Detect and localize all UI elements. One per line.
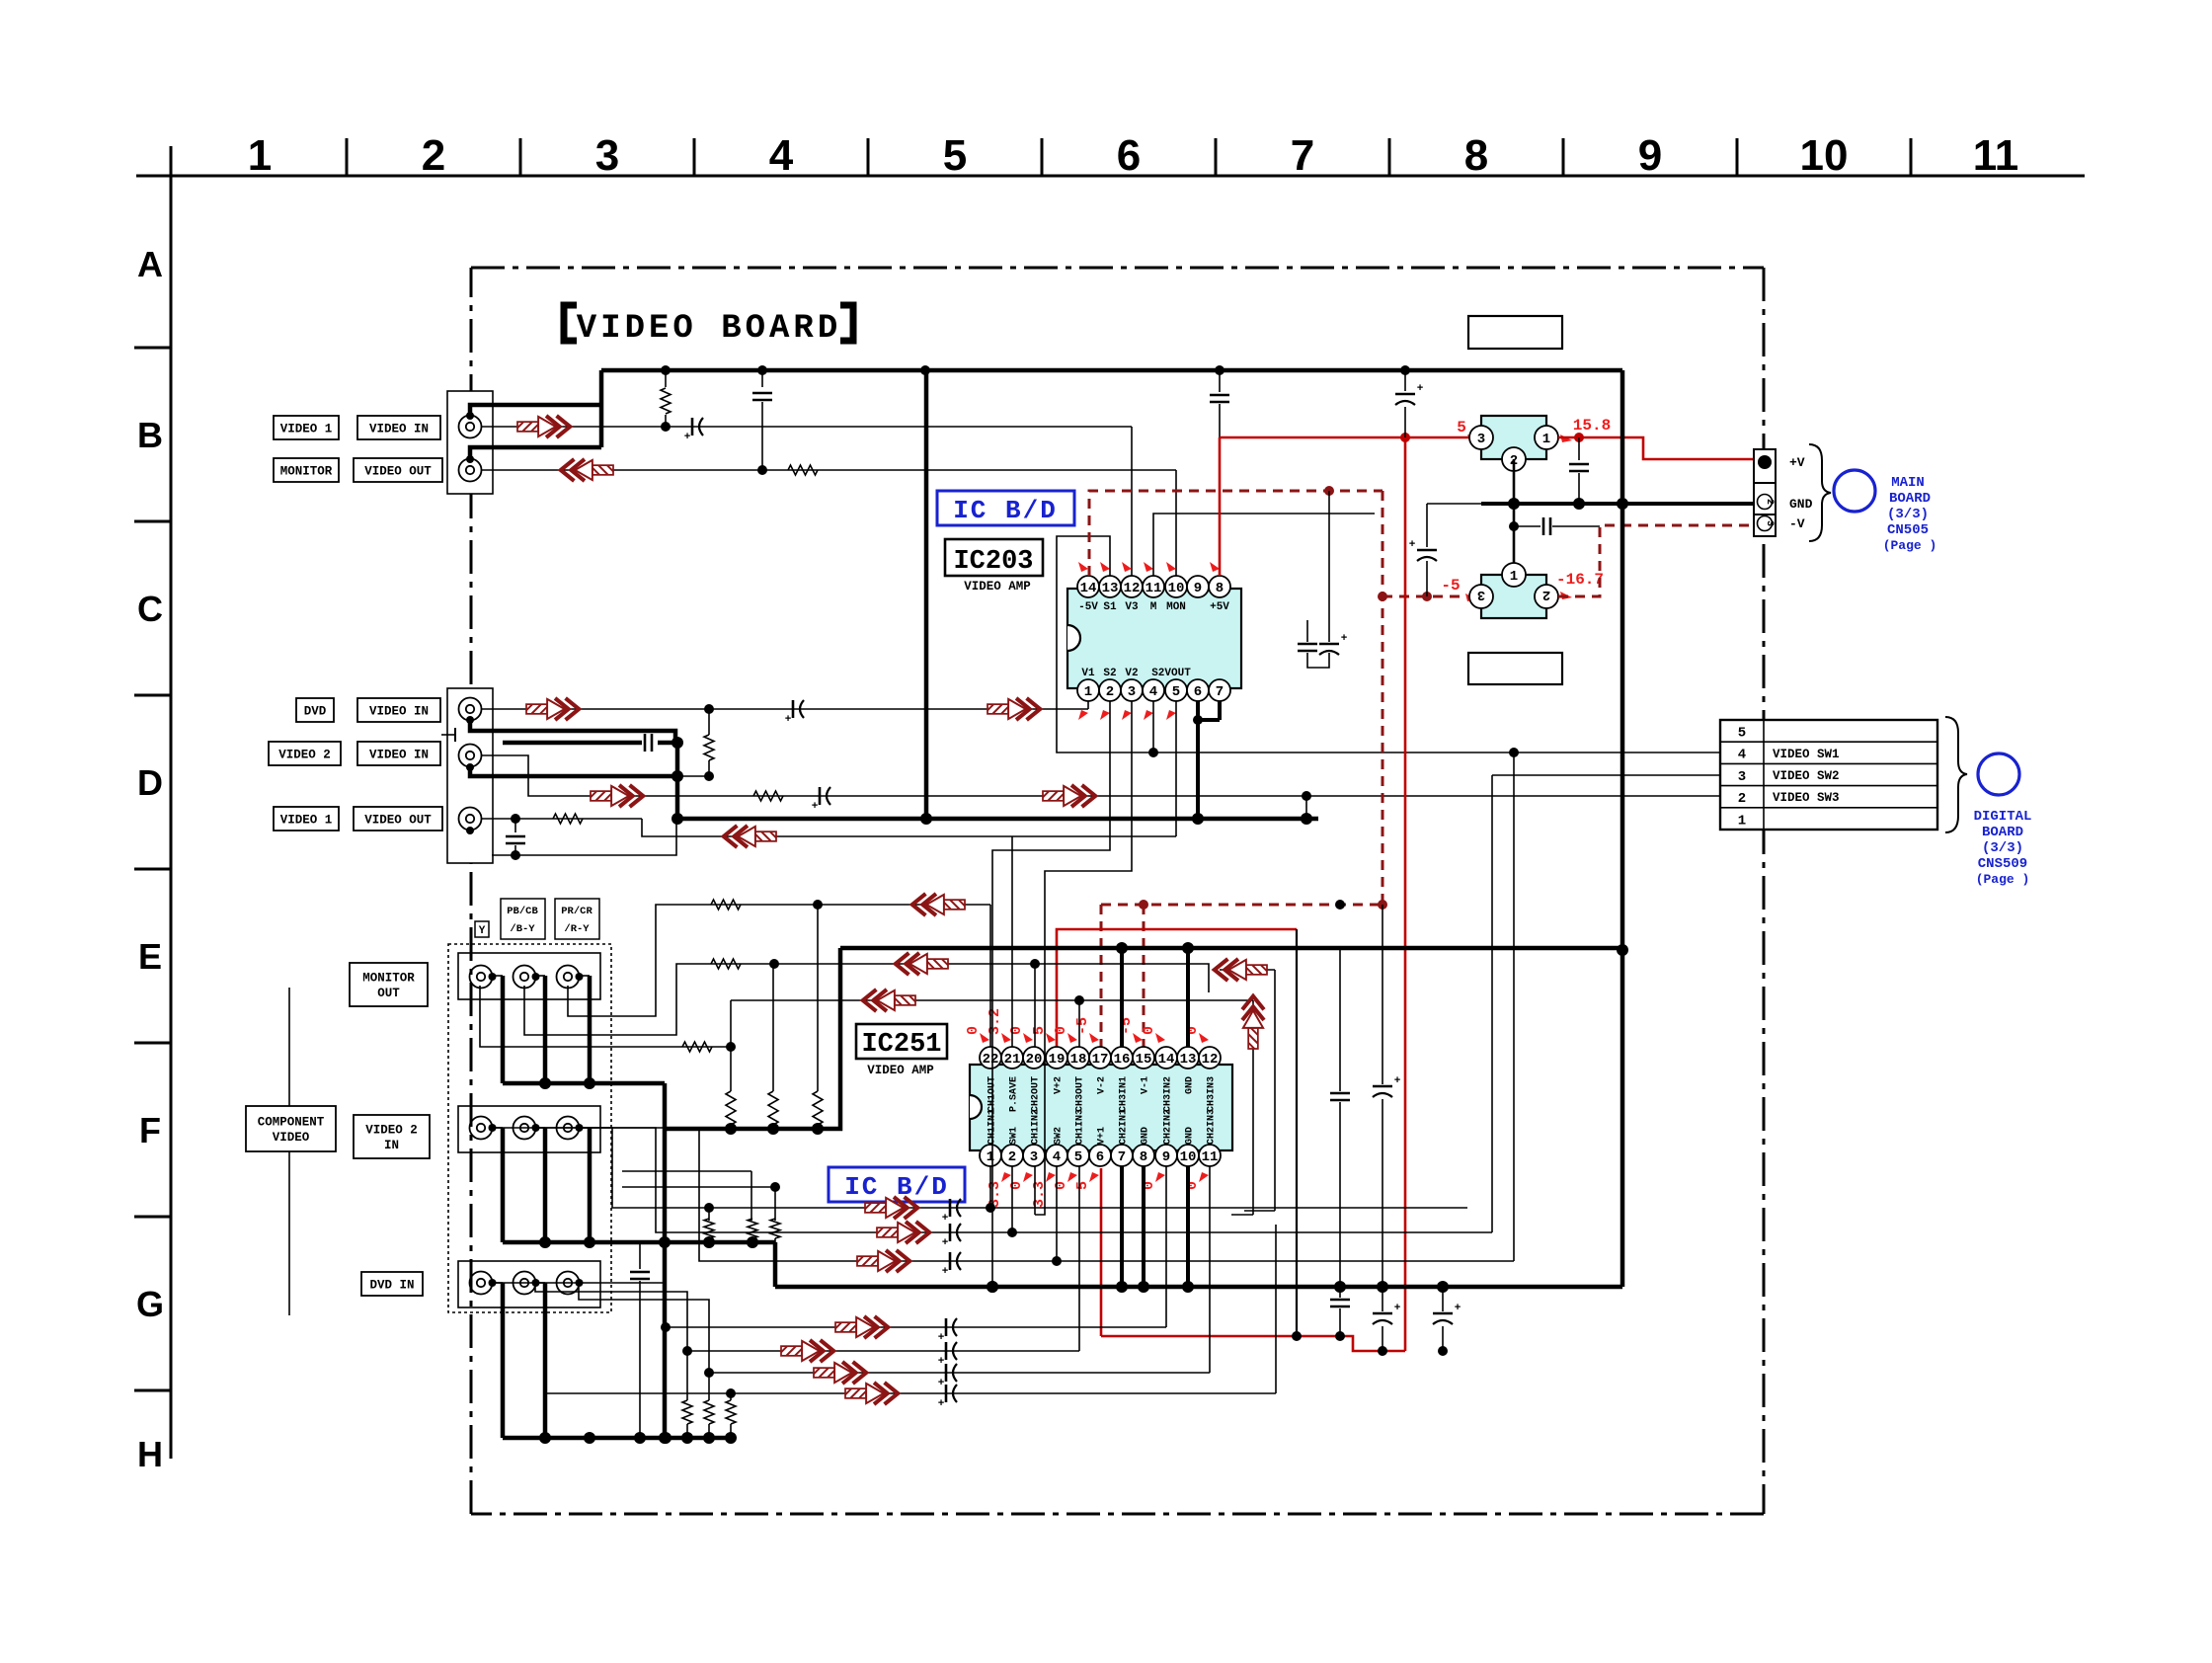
svg-text:MONITOR: MONITOR: [280, 464, 333, 478]
svg-text:10: 10: [1180, 1149, 1197, 1165]
svg-text:-5: -5: [1074, 1017, 1091, 1035]
svg-text:VIDEO OUT: VIDEO OUT: [364, 813, 432, 827]
svg-text:CNS509: CNS509: [1978, 856, 2027, 872]
arrow video2 in b: [1043, 785, 1095, 807]
wire gnd bus F: [503, 1240, 775, 1245]
svg-text:20: 20: [1026, 1052, 1043, 1068]
svg-text:+: +: [785, 714, 792, 726]
svg-text:5: 5: [1738, 726, 1746, 742]
wire bus y829: [676, 817, 1318, 822]
label VIDEO IN (video1): [357, 416, 440, 439]
label IC B/D (bottom): [829, 1167, 965, 1202]
wire F term line B: [622, 1186, 775, 1188]
svg-text:11: 11: [1202, 1149, 1219, 1165]
jack J205 video1 out: [459, 808, 482, 831]
arrow monitor out: [561, 459, 613, 481]
video board outline top: [471, 267, 1764, 270]
svg-text:IC203: IC203: [953, 547, 1033, 577]
IC251 bottom pin arrows: [1001, 1172, 1011, 1182]
svg-text:M: M: [1150, 601, 1157, 613]
svg-text:0: 0: [1053, 1026, 1069, 1035]
svg-text:-16.7: -16.7: [1556, 571, 1604, 589]
node dvd junction: [704, 704, 714, 714]
wire IC251 pins7 8 10 gnd: [1120, 1166, 1124, 1287]
capacitor C210: [1404, 370, 1406, 391]
label IC203: [945, 539, 1043, 576]
wire gnd bus G: [503, 1436, 731, 1441]
wire reg2 out dashed: [1558, 525, 1754, 596]
jacks video2 in Y/PB/PR: [458, 1106, 600, 1152]
svg-text:15: 15: [1136, 1052, 1152, 1068]
resistor R205: [753, 791, 783, 801]
box spare top: [1468, 316, 1562, 349]
svg-text:+: +: [684, 432, 691, 443]
svg-text:S2: S2: [1103, 668, 1116, 679]
svg-text:VIDEO 1: VIDEO 1: [280, 422, 333, 436]
wire IC251 pin5 stub: [1078, 1166, 1080, 1261]
svg-text:S2VOUT: S2VOUT: [1151, 668, 1191, 679]
svg-text:(Page ): (Page ): [1976, 872, 2030, 887]
wire IC251 pin16 pin13: [1120, 948, 1124, 1047]
svg-text:1: 1: [1738, 813, 1746, 829]
svg-text:5: 5: [1074, 1181, 1091, 1190]
svg-text:17: 17: [1092, 1052, 1109, 1068]
svg-text:Y: Y: [479, 925, 486, 937]
svg-text:CH1IN2: CH1IN2: [1031, 1109, 1042, 1145]
wire -5V dashed vertical: [1382, 491, 1384, 905]
svg-text:13: 13: [1102, 581, 1119, 596]
video board outline right: [1763, 268, 1766, 1514]
wire bus x938: [924, 370, 929, 819]
svg-text:0: 0: [1008, 1026, 1025, 1035]
svg-text:VIDEO IN: VIDEO IN: [369, 704, 429, 718]
wire +5V red bottom row: [1101, 1336, 1405, 1351]
arrow video2 in a: [591, 785, 643, 807]
svg-text:BOARD: BOARD: [1889, 491, 1931, 507]
jack J203 dvd in: [459, 698, 482, 721]
svg-text:22: 22: [983, 1052, 999, 1068]
svg-text:+: +: [938, 1398, 945, 1410]
svg-text:CH2IN2: CH2IN2: [1163, 1109, 1174, 1145]
svg-text:V+2: V+2: [1054, 1076, 1065, 1094]
svg-text:CH1IN3: CH1IN3: [1075, 1109, 1086, 1145]
svg-text:2: 2: [1738, 791, 1746, 807]
capacitor C201: [691, 418, 694, 436]
wire +5V to IC251 pin6: [1100, 1168, 1103, 1336]
wire video1 in signal: [481, 426, 1132, 428]
svg-text:CH3OUT: CH3OUT: [1075, 1076, 1086, 1112]
resistor R206: [553, 814, 583, 824]
svg-text:VIDEO SW1: VIDEO SW1: [1773, 748, 1840, 761]
wire gnd bus y1303: [775, 1285, 1622, 1290]
svg-text:VIDEO SW3: VIDEO SW3: [1773, 791, 1840, 805]
arrow monitor PB: [896, 953, 948, 975]
svg-text:0: 0: [1053, 1181, 1069, 1190]
svg-text:3.2: 3.2: [987, 1008, 1003, 1035]
wire video1 out return: [642, 819, 1176, 836]
border left line: [170, 146, 173, 1459]
connector CN505: [1754, 449, 1776, 536]
svg-text:CH3IN3: CH3IN3: [1207, 1076, 1218, 1112]
wire video2 shield vertical: [675, 743, 680, 819]
wire +5V IC251 pin19: [1057, 929, 1297, 1047]
svg-text:2: 2: [1764, 499, 1775, 505]
arrow short branch: [1215, 959, 1267, 981]
svg-text:10: 10: [1800, 131, 1849, 180]
svg-text:VIDEO 2: VIDEO 2: [278, 748, 331, 761]
wire comp dvd pb row: [535, 1283, 687, 1351]
label VIDEO 1: [274, 416, 339, 439]
svg-text:2: 2: [1542, 587, 1550, 602]
svg-text:CH3IN2: CH3IN2: [1163, 1076, 1174, 1112]
svg-text:14: 14: [1158, 1052, 1175, 1068]
svg-text:S1: S1: [1103, 601, 1117, 613]
wire -5V dashed top: [1089, 491, 1382, 576]
jack J204 video2 in: [459, 745, 482, 767]
svg-text:14: 14: [1080, 581, 1097, 596]
svg-text:+: +: [942, 1266, 949, 1278]
svg-text:IC251: IC251: [861, 1030, 941, 1060]
arrow up IC251 right: [1242, 996, 1264, 1049]
resistor trio E: [726, 1091, 736, 1125]
connector shell dvd/video2/video1out: [447, 688, 493, 863]
wire monitor to IC203 pin10: [1175, 470, 1177, 576]
arrow CH3: [863, 990, 915, 1011]
wire CH3 line: [731, 999, 1253, 1001]
box spare bottom: [1468, 653, 1562, 684]
svg-text:MAIN: MAIN: [1891, 475, 1925, 491]
svg-text:12: 12: [1202, 1052, 1219, 1068]
svg-text:1: 1: [1510, 569, 1518, 585]
wire monitor PR out: [568, 905, 990, 1016]
wire +5V to IC203 pin8: [1219, 437, 1222, 576]
wire comp video2 pr row: [579, 1128, 1514, 1261]
wire gnd bus to CN505: [1427, 503, 1481, 505]
resistor R201: [665, 370, 667, 387]
wire video2 shield stubs: [492, 1127, 503, 1129]
label VIDEO IN (video2): [357, 742, 440, 765]
capacitor C254: [1442, 1287, 1444, 1311]
resistor trio G: [682, 1400, 692, 1424]
svg-text:6: 6: [1096, 1149, 1104, 1165]
wire +5V red from bus: [1219, 370, 1221, 392]
capacitor C207 C208 pair: [1306, 620, 1308, 642]
svg-text:5: 5: [1074, 1149, 1082, 1165]
node video2 junction: [1302, 791, 1311, 801]
svg-text:4: 4: [1149, 684, 1157, 700]
svg-text:-5V: -5V: [1078, 601, 1098, 613]
svg-text:+V: +V: [1789, 455, 1805, 470]
svg-text:CH2IN1: CH2IN1: [1119, 1109, 1130, 1145]
wire comp video2 y row: [492, 1128, 1467, 1208]
capacitor C206: [514, 819, 516, 832]
arrow monitor PR: [912, 894, 965, 915]
svg-text:12: 12: [1124, 581, 1141, 596]
border column ticks: [346, 138, 349, 176]
node top bus junctions: [661, 365, 671, 375]
svg-text:4: 4: [1053, 1149, 1061, 1165]
resistor R204 dvd shunt: [708, 709, 710, 735]
svg-text:(3/3): (3/3): [1887, 507, 1929, 522]
svg-text:COMPONENT: COMPONENT: [258, 1116, 325, 1130]
svg-text:PB/CB: PB/CB: [507, 906, 538, 917]
svg-text:4: 4: [1738, 748, 1746, 763]
svg-text:4: 4: [769, 131, 794, 180]
svg-text:1: 1: [248, 131, 272, 180]
jacks monitor out Y/PB/PR: [458, 953, 600, 999]
svg-text:V+1: V+1: [1097, 1127, 1108, 1145]
wire -5V dashed to IC251 pin15: [1143, 905, 1145, 1047]
svg-text:V1: V1: [1081, 668, 1095, 679]
svg-text:1: 1: [1542, 432, 1550, 447]
label IC251: [856, 1024, 947, 1059]
svg-text:SW1: SW1: [1009, 1127, 1020, 1145]
capacitor C205: [819, 787, 822, 805]
svg-text:2: 2: [1106, 684, 1114, 700]
chassis tab: [454, 728, 456, 742]
wire gnd thick frame: [503, 1081, 665, 1086]
wire -5V dashed to IC251 pin17: [1100, 905, 1103, 1047]
capacitor C212: [1426, 504, 1428, 547]
svg-text:MONITOR: MONITOR: [362, 972, 415, 986]
svg-text:3: 3: [1477, 432, 1485, 447]
label VIDEO OUT (monitor): [354, 458, 442, 482]
svg-text:+: +: [1417, 383, 1424, 395]
svg-text:19: 19: [1049, 1052, 1066, 1068]
svg-text:CH2IN3: CH2IN3: [1207, 1109, 1218, 1145]
jack J201 video1 in: [459, 416, 482, 438]
node sw1 junctions: [1148, 748, 1158, 757]
wire -5V dashed row: [1101, 904, 1382, 907]
svg-text:8: 8: [1216, 581, 1224, 596]
label VIDEO 2: [269, 742, 341, 765]
capacitor column C252: [1382, 905, 1383, 1084]
svg-text:0: 0: [1141, 1026, 1157, 1035]
svg-text:2: 2: [1008, 1149, 1016, 1165]
svg-text:MON: MON: [1166, 601, 1186, 613]
op-amp U IC251 body: [970, 1065, 1232, 1150]
svg-text:V2: V2: [1125, 668, 1138, 679]
digital board circle: [1978, 753, 2019, 795]
svg-text:11: 11: [1973, 131, 2019, 180]
wire IC203 pin11 M: [1153, 514, 1375, 576]
svg-text:/B-Y: /B-Y: [510, 923, 535, 935]
wire IC203 pin4 stub: [1152, 701, 1154, 752]
label Y: [475, 921, 489, 937]
capacitor C202: [761, 370, 763, 387]
wire comp video2 pb row: [535, 1128, 1492, 1232]
svg-text:1: 1: [987, 1149, 994, 1165]
svg-text:11: 11: [1145, 581, 1162, 596]
wire short branch: [1220, 969, 1275, 971]
svg-text:SW2: SW2: [1054, 1127, 1065, 1145]
connector CNS509 table: [1720, 720, 1937, 830]
wire monitor Y out: [480, 986, 731, 1047]
wire monitor out signal: [481, 469, 1176, 471]
svg-text:18: 18: [1070, 1052, 1087, 1068]
svg-text:OUT: OUT: [377, 987, 400, 1000]
wire +V red long rail: [1404, 437, 1407, 1351]
svg-text:/R-Y: /R-Y: [564, 923, 590, 935]
IC203 pin arrows bottom: [1078, 710, 1088, 720]
capacitor C213: [1514, 525, 1540, 527]
capacitor C204 dvd: [792, 700, 795, 718]
arrow dvd in b: [987, 698, 1040, 720]
wire bus x1643: [1620, 370, 1625, 1287]
wire IC251 pin1 drop: [989, 1166, 991, 1208]
label VIDEO 2 IN: [354, 1115, 430, 1158]
svg-text:PR/CR: PR/CR: [561, 906, 592, 917]
label MONITOR OUT: [350, 963, 428, 1006]
svg-text:D: D: [137, 762, 163, 803]
svg-text:3: 3: [1764, 520, 1775, 526]
capacitor C215 video2 gnd: [639, 1242, 641, 1269]
svg-text:GND: GND: [1141, 1127, 1151, 1145]
svg-text:IN: IN: [384, 1139, 399, 1152]
wire comp dvd pr row: [579, 1283, 709, 1373]
wire PR to IC251 pin22: [989, 905, 991, 1047]
wire IC203 pin3 staircase: [1035, 701, 1132, 1215]
wire dvd y ground drop: [665, 1327, 667, 1438]
svg-text:0: 0: [965, 1026, 982, 1035]
svg-text:B: B: [137, 415, 163, 455]
IC251 top pin arrows: [980, 1033, 989, 1043]
svg-text:VIDEO BOARD: VIDEO BOARD: [577, 310, 841, 348]
CN505 brace: [1809, 444, 1831, 541]
svg-text:9: 9: [1638, 131, 1662, 180]
regulator IC202 -5V: [1481, 575, 1546, 618]
svg-text:CN505: CN505: [1887, 522, 1929, 538]
svg-text:+: +: [1394, 1303, 1401, 1314]
label COMPONENT VIDEO: [246, 1106, 336, 1151]
wire F term line A: [622, 1170, 751, 1172]
label PR/CR/R-Y: [555, 899, 599, 939]
wire IC251 pin2 stub: [1011, 1166, 1013, 1232]
capacitor column C251: [1339, 948, 1341, 1091]
svg-text:CH3IN1: CH3IN1: [1119, 1076, 1130, 1112]
wire video2 shield b: [470, 767, 677, 776]
label VIDEO IN (dvd): [357, 698, 440, 722]
svg-text:VIDEO IN: VIDEO IN: [369, 748, 429, 761]
svg-text:1: 1: [1084, 684, 1092, 700]
svg-text:E: E: [138, 936, 162, 977]
svg-text:GND: GND: [1185, 1076, 1196, 1094]
wire video2 shield cap run: [503, 741, 642, 746]
svg-text:+: +: [1455, 1303, 1461, 1314]
label MONITOR: [274, 458, 339, 482]
svg-text:G: G: [136, 1284, 164, 1324]
wire IC203 pin2 staircase: [992, 701, 1110, 1287]
wire IC203 pin6 pin7 gnd: [1196, 701, 1200, 720]
wire gnd bus y960: [840, 946, 1622, 951]
video board outline bottom: [471, 1513, 1764, 1516]
svg-text:C: C: [137, 589, 163, 629]
main board circle: [1834, 470, 1875, 512]
svg-text:+: +: [942, 1237, 949, 1249]
video board outline left: [470, 268, 473, 1514]
svg-text:V-2: V-2: [1097, 1076, 1108, 1094]
svg-text:3: 3: [1477, 587, 1485, 602]
svg-text:VIDEO 1: VIDEO 1: [280, 813, 333, 827]
wire IC203 pin5 drop: [1175, 701, 1177, 836]
wire CH3 to IC251 pin18: [1078, 1000, 1080, 1047]
svg-text:H: H: [137, 1434, 163, 1474]
svg-text:8: 8: [1140, 1149, 1147, 1165]
svg-text:9: 9: [1162, 1149, 1170, 1165]
svg-text:+: +: [938, 1378, 945, 1389]
svg-text:5: 5: [1457, 419, 1466, 436]
arrow dvd in a: [526, 698, 579, 720]
arrow video1 out: [724, 826, 776, 847]
svg-text:(Page ): (Page ): [1883, 538, 1937, 553]
wire video2 shield a: [470, 720, 675, 743]
svg-text:7: 7: [1291, 131, 1314, 180]
resistor F row1 term: [704, 1203, 714, 1213]
wire dvd in signal: [481, 708, 1088, 710]
svg-text:DVD: DVD: [304, 704, 327, 718]
svg-text:VIDEO AMP: VIDEO AMP: [867, 1064, 934, 1077]
svg-text:(3/3): (3/3): [1982, 840, 2023, 856]
svg-text:-V: -V: [1789, 516, 1805, 531]
label DVD IN: [361, 1272, 423, 1296]
svg-text:+: +: [812, 801, 819, 813]
svg-text:-5: -5: [1441, 577, 1460, 594]
svg-text:CH2OUT: CH2OUT: [1031, 1076, 1042, 1112]
svg-text:VIDEO: VIDEO: [273, 1131, 310, 1145]
svg-text:3: 3: [595, 131, 619, 180]
label PB/CB/B-Y: [501, 899, 545, 939]
wire +B top bus: [601, 368, 1622, 373]
svg-text:6: 6: [1194, 684, 1202, 700]
svg-text:VIDEO 2: VIDEO 2: [365, 1124, 418, 1138]
svg-text:+: +: [1409, 539, 1416, 551]
wire IC251 pin11 stub: [1209, 1166, 1211, 1201]
jack J202 monitor out: [459, 459, 482, 482]
svg-text:BOARD: BOARD: [1982, 825, 2023, 840]
border row ticks: [134, 347, 171, 350]
wire IC251 pin4 stub: [1056, 1166, 1058, 1261]
svg-text:P.SAVE: P.SAVE: [1009, 1076, 1020, 1112]
wire sw1 drop: [1513, 752, 1515, 1261]
wire monitor shield stubs: [492, 975, 503, 977]
svg-text:5: 5: [943, 131, 967, 180]
svg-text:+5V: +5V: [1210, 601, 1229, 613]
svg-text:VIDEO OUT: VIDEO OUT: [364, 464, 432, 478]
svg-text:F: F: [139, 1110, 161, 1150]
wire -5V dashed to reg2: [1382, 595, 1477, 598]
svg-text:V3: V3: [1125, 601, 1139, 613]
wire comp dvd 4th row: [545, 1392, 1276, 1394]
svg-text:GND: GND: [1185, 1127, 1196, 1145]
wire video1 out shield: [492, 819, 676, 855]
wire up-arrow branch: [1252, 1000, 1254, 1215]
wire reg1 out red: [1558, 437, 1754, 459]
connector shell video1/monitor: [447, 391, 493, 494]
arrow video1 in: [517, 416, 570, 437]
svg-text:+: +: [1341, 633, 1348, 645]
svg-text:5: 5: [1172, 684, 1180, 700]
label DVD: [296, 698, 334, 722]
svg-text:2: 2: [422, 131, 445, 180]
svg-text:+: +: [938, 1356, 945, 1368]
svg-text:A: A: [137, 244, 163, 284]
svg-text:15.8: 15.8: [1573, 417, 1611, 435]
wire IC251 pin21 up: [1011, 836, 1013, 1047]
svg-text:10: 10: [1168, 581, 1185, 596]
wire monitor PB out: [524, 964, 1209, 1035]
wire video1 shield up: [470, 405, 601, 416]
label VIDEO OUT (video1): [354, 807, 442, 831]
